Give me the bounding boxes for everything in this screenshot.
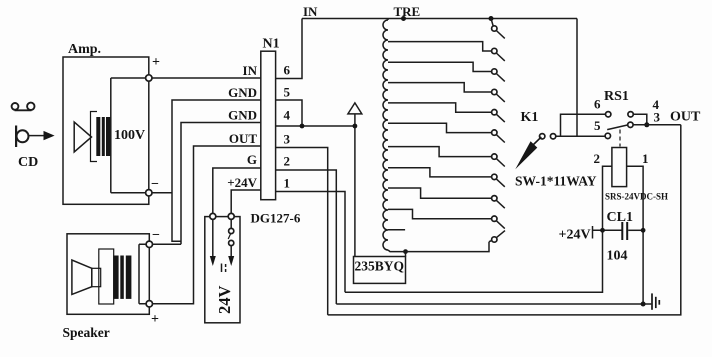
ground [652,293,659,309]
antenna triangle symbol [348,103,362,114]
svg-text:SRS-24VDC-SH: SRS-24VDC-SH [605,192,668,202]
svg-text:SW-1*11WAY: SW-1*11WAY [515,174,597,189]
coil 235BYQ winding [383,20,388,250]
pin 6 stub and riser [276,19,302,79]
svg-text:+24V: +24V [559,228,591,243]
amp transformer bracket [91,112,98,162]
pin 4 stub [276,125,355,127]
connector N1 [261,51,276,200]
K1 jack circles [540,134,545,139]
svg-text:−: − [151,177,159,192]
transformer label box 235BYQ [354,257,406,284]
svg-text:+: + [151,312,159,327]
svg-text:Speaker: Speaker [63,325,110,340]
node top switch [489,16,494,21]
speaker secondary wire [139,244,146,303]
wire OUT right side [328,125,681,315]
svg-text:2: 2 [284,154,291,169]
svg-text:104: 104 [607,249,628,264]
battery left pin [212,219,214,256]
relay coil SRS-24VDC-SH [612,148,627,187]
svg-text:5: 5 [284,85,291,100]
wire pin1 +24V to battery [231,190,261,213]
svg-text:2: 2 [594,151,601,166]
speaker box [67,234,149,314]
tap 7 [388,147,492,157]
switch contact 1 [491,19,493,27]
tap 9 [388,188,492,198]
svg-text:Amp.: Amp. [68,42,101,57]
tap 8 [388,168,492,177]
node ground junction [641,302,646,307]
svg-text:GND: GND [228,108,257,123]
top IN line [302,18,577,20]
svg-text:OUT: OUT [229,131,258,146]
svg-text:+: + [152,55,160,70]
svg-text:G: G [247,152,257,167]
tap 5 [388,103,492,112]
CD arrow [29,131,55,140]
svg-text:−: − [152,228,160,243]
svg-text:DG127-6: DG127-6 [251,211,301,226]
svg-text:RS1: RS1 [604,89,629,104]
tap 6 [388,123,492,132]
battery DC symbol [221,264,223,273]
tap 11 stub [388,229,405,231]
wire contact6 to K1 [561,114,606,136]
wire speaker minus [153,243,182,245]
wire amp minus [152,192,172,194]
speaker transformer bars [113,256,118,299]
TRE drop wire [576,19,578,137]
svg-text:3: 3 [284,132,291,147]
node RS1 out [644,122,649,127]
speaker horn [72,260,92,294]
svg-text:24V: 24V [215,286,234,315]
node coil bottom [403,249,408,254]
amp box [63,57,149,204]
node triangle junction [353,124,358,129]
wire pin2 G to battery [213,168,261,213]
wire RS1 common to OUT [633,124,681,126]
tap 10 [388,209,492,218]
dashed actuator link [619,130,621,147]
svg-text:IN: IN [303,4,318,19]
wire coil pin2 [603,166,612,230]
node TRE [401,16,406,21]
svg-text:6: 6 [594,97,601,112]
amp transformer core bars [96,117,100,156]
wire pin3 OUT to speaker plus [153,146,261,304]
wire coil pin1 [627,166,644,304]
pin 2 stub [276,170,337,304]
wire pin6 IN row [152,77,261,79]
amp secondary wire [111,78,146,193]
svg-text:K1: K1 [521,110,539,125]
RS1 wiper [607,125,628,130]
node +24V [600,228,605,233]
op-amp triangle [74,122,91,152]
svg-text:3: 3 [654,110,661,125]
battery box 24V [205,217,240,323]
pin 5 stub [276,100,302,126]
svg-text:5: 5 [594,118,601,133]
battery right pin with jack [230,219,232,228]
svg-text:+24V: +24V [227,175,257,190]
svg-text:6: 6 [284,63,291,78]
svg-text:100V: 100V [114,128,145,143]
svg-text:1: 1 [284,176,291,191]
svg-text:OUT: OUT [670,110,701,125]
node pin4-5 junction [300,124,305,129]
CD source symbol [12,103,35,147]
coil bottom wire to contact 11 [388,242,489,252]
svg-text:TRE: TRE [394,4,421,19]
svg-text:CL1: CL1 [607,210,633,225]
tap 2 [388,42,492,51]
svg-text:CD: CD [18,155,38,170]
svg-text:N1: N1 [263,37,280,52]
svg-text:4: 4 [284,108,291,123]
pin 1 stub [276,192,345,293]
svg-text:IN: IN [243,63,258,78]
tap 4 [388,83,492,92]
RS1 contact 4 loop [633,114,647,125]
svg-text:1: 1 [642,151,649,166]
K1 pointer arrow [533,137,541,145]
wire G ground run [336,303,651,305]
wire pin4 GND left [181,123,261,245]
svg-text:235BYQ: 235BYQ [355,259,405,274]
wire K1 to contact5 [556,135,605,137]
wire GND vertical [172,100,261,241]
speaker transformer winding [99,249,114,304]
node cap right [641,228,646,233]
svg-text:GND: GND [228,85,257,100]
tap 3 [388,62,492,71]
pin 3 stub [276,148,328,315]
wire +24V bottom run [345,230,603,292]
